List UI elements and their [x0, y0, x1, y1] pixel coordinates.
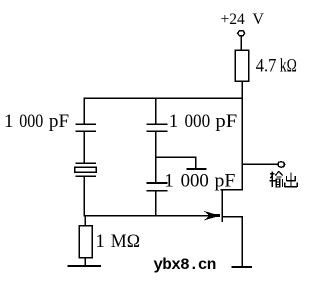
transistor V1 drain jog	[220, 189, 242, 191]
label C1 1 000 pF	[4, 111, 69, 132]
terminal circle output	[278, 162, 285, 168]
ground bar middle	[187, 168, 207, 170]
wire C3 to bottom bus	[155, 191, 157, 217]
resistor R2 1 MOhm body	[79, 226, 92, 258]
label +24 V	[221, 11, 265, 28]
resistor R1 4.7 kOhm body	[235, 50, 249, 81]
capacitor C3 1000 pF plates	[146, 183, 167, 191]
wire bottom bus (gate wire)	[84, 215, 211, 217]
svg-text:ybx8.cn: ybx8.cn	[153, 256, 215, 274]
label C2 1 000 pF	[169, 111, 238, 132]
wire terminal to resistor R1	[240, 36, 242, 50]
wire C1 to crystal	[83, 132, 85, 164]
ground bar left	[68, 265, 101, 267]
wire left branch top (bus to C1)	[83, 98, 85, 124]
transistor V1 source jog	[222, 216, 243, 218]
svg-text:4.7kΩ: 4.7kΩ	[256, 56, 297, 77]
wire top horizontal bus	[84, 97, 243, 99]
label shuchu (output) drawn strokes	[269, 171, 297, 187]
svg-text:1000pF: 1000pF	[169, 111, 238, 132]
wire output tap	[242, 163, 278, 165]
transistor V1 channel bar	[221, 189, 223, 222]
wire middle ground tap vertical	[195, 157, 197, 168]
crystal X1 top plate	[76, 162, 96, 164]
watermark ybx8.cn	[153, 256, 215, 274]
ground bar right	[232, 266, 252, 268]
capacitor C1 1000 pF plates	[76, 124, 97, 131]
wire source to ground	[241, 217, 243, 267]
wire middle ground tap horizontal	[156, 156, 197, 158]
svg-text:1MΩ: 1MΩ	[95, 231, 140, 252]
wire C2 to C3	[155, 132, 157, 183]
svg-text:1000pF: 1000pF	[164, 170, 235, 191]
wire R1 bottom to drain jog (main right vertical)	[241, 81, 243, 189]
crystal X1 body	[75, 167, 97, 172]
svg-text:1000pF: 1000pF	[4, 111, 69, 132]
terminal circle +24V	[237, 31, 244, 36]
label 1 MOhm	[95, 231, 140, 252]
wire R2 bottom to ground	[84, 258, 86, 266]
svg-text:+24V: +24V	[221, 11, 265, 28]
capacitor C2 1000 pF plates	[146, 124, 167, 131]
wire crystal to bottom bus	[83, 177, 85, 217]
wire middle branch top (bus to C2)	[155, 98, 157, 124]
transistor V1 gate arrow	[204, 211, 221, 221]
crystal X1 bottom plate	[76, 175, 96, 177]
label 4.7 kOhm	[256, 56, 297, 77]
label C3 1 000 pF	[164, 170, 235, 191]
wire bus junction down to R2	[84, 216, 86, 226]
